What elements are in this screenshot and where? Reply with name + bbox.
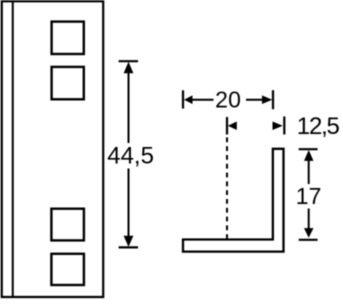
- dim 17 down arrowhead: [304, 228, 314, 238]
- square hole 1: [52, 22, 84, 54]
- dim 44,5 top tick: [119, 60, 138, 62]
- square hole 4: [51, 254, 84, 285]
- svg-text:44,5: 44,5: [107, 143, 154, 170]
- square hole 3: [51, 209, 84, 241]
- bracket front view fold line: [12, 1, 14, 297]
- svg-text:20: 20: [215, 87, 241, 113]
- dim 17 bottom tick: [299, 239, 318, 241]
- dim 17 upper line: [308, 160, 310, 184]
- center dashed line: [226, 137, 228, 240]
- dim 20 right tail: [246, 99, 263, 101]
- bracket side view L profile: [183, 149, 284, 252]
- dim 17 lower line: [308, 209, 310, 230]
- dim 20 left tick: [182, 90, 184, 108]
- dim 20 left arrowhead: [184, 95, 193, 104]
- dim 20 right tick: [272, 90, 274, 109]
- dim 44,5 upper line: [128, 72, 130, 143]
- square hole 2: [52, 67, 84, 99]
- svg-text:12,5: 12,5: [297, 113, 340, 140]
- dim 44,5 lower line: [128, 169, 130, 238]
- dim 20 right arrowhead: [262, 95, 272, 104]
- dim 12,5 right tick: [283, 117, 285, 135]
- dim 44,5 bottom tick: [119, 246, 138, 248]
- dim 44,5 up arrowhead: [124, 62, 134, 73]
- svg-text:17: 17: [296, 183, 322, 209]
- dim 17 top tick: [299, 148, 318, 150]
- dim 17 up arrowhead: [304, 150, 314, 161]
- dim 20 left tail: [192, 99, 214, 101]
- dim 12,5 left tick: [226, 117, 228, 135]
- bracket front view outer rectangle: [2, 1, 103, 297]
- dim 12,5 right arrowhead: [273, 122, 283, 131]
- dim 12,5 left arrowhead: [228, 122, 237, 131]
- dim 44,5 down arrowhead: [124, 236, 134, 247]
